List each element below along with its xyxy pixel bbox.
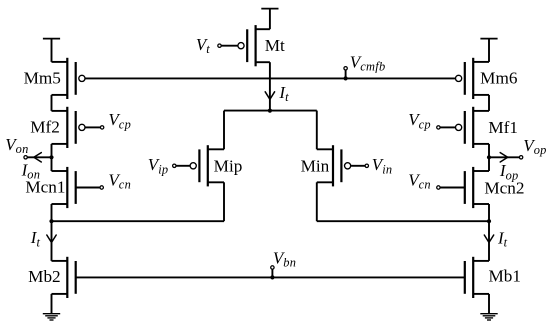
svg-text:Mf2: Mf2 [30, 117, 60, 136]
svg-text:Mip: Mip [214, 156, 243, 175]
svg-text:Mb2: Mb2 [28, 267, 60, 286]
svg-text:Mm5: Mm5 [24, 68, 61, 87]
svg-text:Mf1: Mf1 [488, 118, 518, 137]
svg-text:Mt: Mt [265, 36, 285, 55]
svg-text:Mm6: Mm6 [480, 69, 518, 88]
svg-text:Mb1: Mb1 [488, 267, 520, 286]
svg-text:Min: Min [301, 156, 330, 175]
